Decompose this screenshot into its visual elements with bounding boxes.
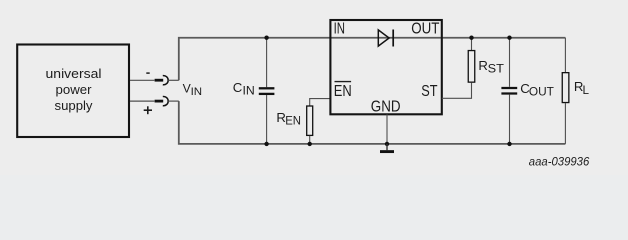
- capacitor CIN: [259, 38, 275, 144]
- svg-text:GND: GND: [371, 98, 401, 115]
- diode D1: [378, 30, 393, 47]
- node junction dot COUT top: [507, 36, 511, 40]
- svg-text:EN: EN: [285, 116, 301, 128]
- power supply box: [17, 45, 129, 138]
- svg-text:EN: EN: [334, 83, 352, 100]
- node junction dot REN bottom: [308, 142, 312, 146]
- ground symbol: [380, 144, 394, 152]
- svg-text:OUT: OUT: [411, 21, 440, 38]
- capacitor COUT: [501, 38, 517, 144]
- wire bottom ground rail: [179, 101, 566, 144]
- RL label: [574, 79, 590, 97]
- resistor RL: [562, 38, 569, 144]
- connector J1 (negative) plug and jack: [155, 76, 179, 85]
- REN label: [276, 110, 301, 128]
- svg-text:IN: IN: [243, 85, 255, 97]
- wire from box to plus connector: [130, 100, 154, 102]
- node junction dot CIN top: [264, 36, 268, 40]
- svg-text:supply: supply: [55, 98, 94, 113]
- svg-text:C: C: [233, 80, 243, 95]
- node junction dot RST top: [469, 36, 473, 40]
- wire top rail VIN net: [179, 38, 566, 80]
- resistor RST: [442, 38, 475, 99]
- svg-text:IN: IN: [191, 86, 203, 98]
- svg-text:universal: universal: [46, 66, 102, 81]
- wire from box to minus connector: [130, 79, 154, 81]
- node junction dot GND: [385, 142, 389, 146]
- connector J2 (positive) plug and jack: [155, 97, 179, 106]
- pin label EN with overline: [334, 82, 352, 100]
- op-amp U1 LDO block: [330, 20, 441, 114]
- svg-text:OUT: OUT: [529, 87, 554, 99]
- svg-text:L: L: [583, 85, 590, 97]
- svg-text:aaa-039936: aaa-039936: [529, 157, 590, 169]
- wire GND pin to ground: [386, 114, 388, 144]
- plus label: [144, 106, 152, 114]
- svg-text:IN: IN: [334, 21, 345, 38]
- svg-text:ST: ST: [421, 83, 438, 100]
- resistor REN: [307, 106, 313, 144]
- wire EN pin to REN: [310, 99, 331, 106]
- svg-text:ST: ST: [488, 64, 504, 76]
- RST label: [478, 58, 504, 76]
- node junction dot CIN bottom: [264, 142, 268, 146]
- node junction dot COUT bottom: [507, 142, 511, 146]
- node VIN label: [183, 82, 203, 98]
- COUT label: [520, 81, 554, 99]
- minus label: [146, 72, 149, 74]
- CIN label: [233, 80, 255, 98]
- svg-text:R: R: [478, 58, 488, 73]
- svg-text:power: power: [56, 82, 93, 97]
